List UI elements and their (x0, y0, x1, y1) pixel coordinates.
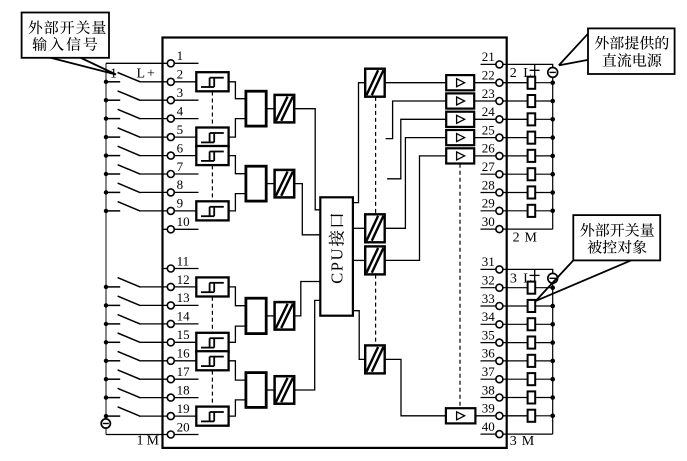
wire load L29 to bus (535, 210, 553, 212)
wire load L36 to bus (535, 360, 553, 362)
terminal 4 (167, 115, 174, 122)
wire load L27 to bus (535, 173, 553, 175)
wire terminal 37 to load (481, 378, 528, 380)
wire load L35 to bus (535, 342, 553, 344)
svg-text:11: 11 (177, 253, 190, 268)
wire terminal 30 (2M) (481, 228, 553, 230)
left input bus 1L+ vertical (105, 63, 107, 419)
wire filter F5 to input box A1 (229, 119, 246, 138)
wire terminal 35 to load (481, 342, 528, 344)
wire box A2 to optocoupler ISO2 (266, 183, 274, 185)
load L32 (528, 282, 536, 294)
switch S8 blade (118, 183, 141, 193)
output driver D24 (446, 112, 474, 127)
svg-text:20: 20 (177, 419, 190, 434)
junction dot bus at 25 (550, 135, 555, 140)
wire terminal 31 to DC source 3L+ (481, 269, 553, 273)
terminal 10 (167, 226, 174, 233)
wire terminal 34 to load (481, 323, 528, 325)
wire CPU to transformer T1 (353, 83, 365, 203)
dashed continuation T1-T2 (375, 97, 377, 214)
junction dot bus at 27 (550, 172, 555, 177)
switch S3 fixed-contact stub (106, 99, 120, 101)
switch S6 blade (118, 146, 141, 156)
input filter (hysteresis) F9 (196, 201, 228, 220)
junction dot bus at 24 (550, 117, 555, 122)
svg-text:34: 34 (482, 309, 496, 324)
junction dot bus at 29 (550, 209, 555, 214)
isolation transformer T1 (365, 69, 385, 97)
wire switch S3 to terminal 3 (141, 99, 199, 101)
DC source negative terminal left (circled minus) (101, 419, 110, 428)
svg-text:L: L (523, 66, 532, 81)
svg-text:CPU: CPU (328, 247, 347, 284)
input filter (hysteresis) F12 (196, 277, 228, 296)
wire switch S2 to terminal 2 (141, 81, 197, 83)
terminal 35 (496, 339, 503, 346)
wire load L37 to bus (535, 378, 553, 380)
terminal 15 (167, 339, 174, 346)
input summing box A1 (246, 91, 266, 126)
svg-text:27: 27 (482, 159, 496, 174)
switch S4 fixed-contact stub (106, 118, 120, 120)
load L26 (528, 150, 536, 162)
input filter (hysteresis) F19 (196, 407, 228, 426)
dashed continuation line between F6 and F9 (211, 165, 213, 201)
svg-text:19: 19 (177, 401, 190, 416)
switch S2 fixed-contact stub (106, 81, 120, 83)
bus 3M vertical (552, 283, 554, 434)
junction dot on 1L+ bus at switch 18 (104, 395, 108, 399)
switch S18 fixed-contact stub (106, 397, 120, 399)
svg-text:L: L (137, 67, 146, 82)
terminal 1 (167, 60, 174, 67)
load L29 (528, 205, 536, 217)
load L38 (528, 391, 536, 403)
junction dot on 1L+ bus at switch 7 (104, 172, 108, 176)
junction dot on 1L+ bus at switch 6 (104, 153, 108, 157)
load L39 (528, 410, 536, 422)
switch S7 fixed-contact stub (106, 173, 120, 175)
terminal 11 (167, 265, 174, 272)
wire switch S7 to terminal 7 (141, 173, 199, 175)
terminal 26 (496, 152, 503, 159)
wire stub driver D23 (continuation) (386, 101, 447, 139)
optocoupler ISO2 (275, 170, 295, 198)
svg-text:31: 31 (482, 254, 495, 269)
bus 2M vertical (552, 77, 554, 229)
svg-text:9: 9 (177, 196, 184, 211)
switch S16 blade (118, 351, 141, 361)
load L23 (528, 95, 536, 107)
wire switch S18 to terminal 18 (141, 397, 199, 399)
svg-text:36: 36 (482, 346, 496, 361)
isolation transformer T4 (365, 345, 385, 373)
DC source G2 (circled minus) (548, 68, 558, 78)
optocoupler ISO4 (275, 376, 295, 404)
switch S8 fixed-contact stub (106, 191, 120, 193)
input filter (hysteresis) F15 (196, 333, 228, 352)
dashed continuation T3-T4 (375, 275, 377, 346)
wire terminal 27 to load (481, 173, 528, 175)
switch S17 fixed-contact stub (106, 378, 120, 380)
junction dot bus at 38 (550, 395, 555, 400)
terminal 7 (167, 171, 174, 178)
load L34 (528, 318, 536, 330)
input filter (hysteresis) F6 (196, 146, 228, 165)
terminal 27 (496, 171, 503, 178)
wire switch S13 to terminal 13 (141, 304, 199, 306)
load L36 (528, 355, 536, 367)
dashed continuation line between F16 and F19 (211, 371, 213, 407)
wire optocoupler ISO2 to CPU (294, 184, 320, 235)
svg-text:M: M (147, 434, 160, 449)
svg-text:40: 40 (482, 419, 495, 434)
wire filter F2 to input box A1 (229, 82, 246, 99)
dashed continuation line between F2 and F5 (211, 92, 213, 128)
svg-text:16: 16 (177, 346, 191, 361)
wire stub terminal 10 (163, 228, 199, 230)
wire T1 to driver D22 (385, 82, 447, 84)
input filter (hysteresis) F5 (196, 128, 228, 147)
junction dot bus at 34 (550, 322, 555, 327)
wire terminal 29 to load (481, 210, 528, 212)
svg-text:12: 12 (177, 272, 190, 287)
optocoupler ISO3 (275, 302, 295, 330)
wire box A3 to optocoupler ISO3 (266, 315, 274, 317)
wire filter F16 to input box A4 (229, 361, 246, 380)
CPU interface block U1 (320, 197, 353, 315)
wire T3 to driver D26 (385, 156, 447, 261)
left bus lower segment (105, 428, 107, 434)
switch S3 blade (118, 91, 141, 101)
svg-text:8: 8 (177, 177, 184, 192)
wire optocoupler ISO3 to CPU (294, 282, 320, 316)
input filter (hysteresis) F16 (196, 351, 228, 370)
output driver D39 (446, 408, 476, 423)
terminal 17 (167, 376, 174, 383)
wire bus to terminal 1 (106, 62, 199, 64)
junction dot bus at 23 (550, 99, 555, 104)
wire driver D23 to terminal 23 and load (474, 100, 527, 102)
svg-text:7: 7 (177, 159, 184, 174)
svg-text:10: 10 (177, 214, 190, 229)
wire stub driver D24 (continuation) (387, 119, 446, 179)
svg-text:5: 5 (177, 122, 184, 137)
svg-text:+: + (147, 67, 155, 82)
terminal 20 (167, 431, 174, 438)
wire optocoupler ISO1 to CPU (294, 109, 320, 210)
load L24 (528, 113, 536, 125)
wire load L34 to bus (535, 323, 553, 325)
junction dot bus at 33 (550, 304, 555, 309)
switch S13 blade (118, 296, 141, 306)
isolation transformer T2 (365, 214, 385, 242)
label 3L plus-cross (530, 274, 540, 276)
svg-text:35: 35 (482, 327, 495, 342)
svg-text:37: 37 (482, 364, 496, 379)
output driver D26 (446, 148, 474, 163)
wire load L38 to bus (535, 397, 553, 399)
switch S19 fixed-contact stub (106, 415, 120, 417)
terminal 40 (496, 431, 503, 438)
svg-text:26: 26 (482, 141, 496, 156)
svg-text:3: 3 (510, 272, 517, 287)
input filter (hysteresis) F2 (196, 72, 228, 91)
terminal 16 (167, 357, 174, 364)
wire driver D22 to terminal 22 and load (474, 82, 527, 84)
input summing box A2 (246, 166, 266, 201)
wire load L23 to bus (535, 100, 553, 102)
wire terminal 28 to load (481, 192, 528, 194)
wire terminal 33 to load (481, 305, 528, 307)
junction dot on 1L+ bus at switch 3 (104, 98, 108, 102)
junction dot on 1L+ bus at switch 5 (104, 135, 108, 139)
wire stub terminal 11 (163, 268, 199, 270)
terminal 5 (167, 134, 174, 141)
load L25 (528, 132, 536, 144)
junction dot bus at 37 (550, 377, 555, 382)
switch S4 blade (118, 109, 141, 119)
wire switch S9 to terminal 9 (141, 210, 197, 212)
terminal 30 (496, 226, 503, 233)
junction dot bus at 26 (550, 154, 555, 159)
svg-text:6: 6 (177, 140, 184, 155)
junction dot bus at 32 (550, 285, 555, 290)
terminal 2 (167, 78, 174, 85)
svg-text:23: 23 (482, 86, 495, 101)
terminal 39 (496, 412, 503, 419)
switch S9 blade (118, 202, 141, 212)
wire switch S14 to terminal 14 (141, 323, 199, 325)
terminal 24 (496, 116, 503, 123)
main module rectangle (163, 38, 507, 448)
wire box A4 to optocoupler ISO4 (266, 389, 274, 391)
wire CPU to transformer T3 (353, 259, 365, 261)
wire terminal 40 (3M) (481, 433, 553, 435)
terminal 3 (167, 97, 174, 104)
wire filter F12 to input box A3 (229, 287, 246, 306)
switch S5 fixed-contact stub (106, 136, 120, 138)
wire T2 to driver D25 (385, 138, 447, 229)
switch S15 fixed-contact stub (106, 341, 120, 343)
wire filter F9 to input box A2 (229, 194, 246, 211)
switch S18 blade (118, 388, 141, 398)
terminal 34 (496, 321, 503, 328)
junction dot on 1L+ bus at switch 19 (104, 414, 108, 418)
wire optocoupler ISO4 to CPU (294, 300, 320, 390)
switch S12 fixed-contact stub (106, 286, 120, 288)
wire filter F19 to input box A4 (229, 400, 246, 416)
switch S19 blade (118, 407, 141, 417)
junction dot on 1L+ bus at switch 8 (104, 190, 108, 194)
svg-text:38: 38 (482, 382, 495, 397)
wire T4 to driver D39 (385, 359, 446, 415)
terminal 23 (496, 98, 503, 105)
switch S16 fixed-contact stub (106, 360, 120, 362)
input summing box A3 (246, 298, 266, 333)
junction dot bus at 28 (550, 190, 555, 195)
callout box: externally supplied DC power (588, 28, 675, 74)
junction dot on 1L+ bus at switch 13 (104, 303, 108, 307)
output driver D25 (446, 130, 474, 145)
callout tail (external input signals) (51, 58, 117, 75)
switch S7 blade (118, 165, 141, 175)
svg-text:17: 17 (177, 364, 191, 379)
switch S5 blade (118, 128, 141, 138)
svg-text:39: 39 (482, 401, 495, 416)
svg-text:28: 28 (482, 177, 495, 192)
junction dot on 1L+ bus at switch 9 (104, 209, 108, 213)
svg-text:29: 29 (482, 196, 495, 211)
terminal 19 (167, 413, 174, 420)
wire switch S15 to terminal 15 (141, 341, 197, 343)
svg-text:M: M (525, 231, 538, 246)
terminal 9 (167, 207, 174, 214)
junction dot on 1L+ bus at switch 16 (104, 359, 108, 363)
terminal 6 (167, 152, 174, 159)
load L35 (528, 337, 536, 349)
optocoupler ISO1 (275, 95, 295, 123)
wire switch S19 to terminal 19 (141, 415, 197, 417)
svg-text:33: 33 (482, 291, 495, 306)
junction dot bus at 36 (550, 359, 555, 364)
junction dot on 1L+ bus at switch 4 (104, 116, 108, 120)
load L33 (528, 300, 536, 312)
output driver D23 (446, 93, 474, 108)
terminal 29 (496, 207, 503, 214)
wire CPU to transformer T2 (353, 227, 365, 229)
wire switch S6 to terminal 6 (141, 155, 197, 157)
svg-text:14: 14 (177, 309, 191, 324)
svg-text:13: 13 (177, 290, 190, 305)
dashed continuation driver column (459, 164, 461, 408)
svg-text:2: 2 (510, 66, 517, 81)
load L28 (528, 186, 536, 198)
wire load L39 to bus (535, 415, 553, 417)
wire driver D25 to terminal 25 and load (474, 137, 527, 139)
svg-text:24: 24 (482, 104, 496, 119)
terminal 22 (496, 79, 503, 86)
wire CPU to transformer T4 (353, 311, 365, 360)
input summing box A4 (246, 373, 266, 408)
terminal 18 (167, 394, 174, 401)
wire terminal 36 to load (481, 360, 528, 362)
wire load L33 to bus (535, 305, 553, 307)
wire load L24 to bus (535, 118, 553, 120)
wire filter F15 to input box A3 (229, 326, 246, 342)
label 2L plus-cross (530, 69, 540, 71)
svg-text:1: 1 (137, 434, 144, 449)
switch S14 fixed-contact stub (106, 323, 120, 325)
junction dot bus at 35 (550, 340, 555, 345)
terminal 38 (496, 394, 503, 401)
wire load L22 to bus (535, 82, 553, 84)
wire driver D39 to terminal 39 and load (475, 415, 527, 417)
svg-text:1: 1 (177, 48, 184, 63)
wire driver D24 to terminal 24 and load (474, 118, 527, 120)
wire bus to terminal 20 (106, 434, 199, 436)
svg-text:M: M (522, 434, 535, 449)
terminal 31 (496, 266, 503, 273)
callout box: external switch input signals (22, 13, 109, 58)
wire switch S12 to terminal 12 (141, 286, 197, 288)
wire load L28 to bus (535, 192, 553, 194)
svg-text:22: 22 (482, 68, 495, 83)
svg-text:3: 3 (177, 85, 184, 100)
switch S17 blade (118, 370, 141, 380)
svg-text:2: 2 (177, 67, 184, 82)
terminal 21 (496, 61, 503, 68)
junction dot on 1L+ bus at switch 15 (104, 340, 108, 344)
switch S13 fixed-contact stub (106, 304, 120, 306)
svg-text:L: L (523, 272, 532, 287)
wire filter F6 to input box A2 (229, 156, 246, 174)
wire load L25 to bus (535, 137, 553, 139)
junction dot on 1L+ bus at switch 17 (104, 377, 108, 381)
junction dot on 1L+ bus at switch 2 (104, 80, 108, 84)
terminal 28 (496, 189, 503, 196)
DC source G3 (circled minus) (548, 273, 558, 283)
wire driver D26 to terminal 26 and load (474, 155, 527, 157)
dashed continuation line between F12 and F15 (211, 297, 213, 333)
load L27 (528, 168, 536, 180)
terminal 8 (167, 189, 174, 196)
wire terminal 32 to load (481, 287, 528, 289)
wire load L32 to bus (535, 287, 553, 289)
wire terminal 21 to DC source 2L+ (481, 64, 553, 67)
callout tail (external DC power) (559, 34, 588, 66)
callout box: external switch controlled objects (573, 215, 660, 260)
terminal 36 (496, 357, 503, 364)
wire load L26 to bus (535, 155, 553, 157)
svg-text:30: 30 (482, 214, 495, 229)
switch S6 fixed-contact stub (106, 155, 120, 157)
terminal 14 (167, 320, 174, 327)
wire switch S8 to terminal 8 (141, 191, 199, 193)
isolation transformer T3 (365, 246, 385, 274)
junction dot on 1L+ bus at switch 14 (104, 322, 108, 326)
switch S12 blade (118, 278, 141, 288)
svg-text:32: 32 (482, 273, 495, 288)
wire terminal 38 to load (481, 397, 528, 399)
wire switch S17 to terminal 17 (141, 378, 199, 380)
switch S9 fixed-contact stub (106, 210, 120, 212)
switch S2 blade (118, 73, 141, 83)
switch S14 blade (118, 315, 141, 325)
svg-text:3: 3 (510, 434, 517, 449)
load L37 (528, 373, 536, 385)
svg-text:21: 21 (482, 49, 495, 64)
terminal 13 (167, 302, 174, 309)
junction dot bus at 22 (550, 80, 555, 85)
output driver D22 (446, 75, 474, 90)
switch S15 blade (118, 333, 141, 343)
svg-text:25: 25 (482, 122, 495, 137)
svg-text:18: 18 (177, 382, 190, 397)
terminal 32 (496, 284, 503, 291)
wire box A1 to optocoupler ISO1 (266, 108, 274, 110)
svg-text:2: 2 (513, 231, 520, 246)
load L22 (528, 77, 536, 89)
terminal 25 (496, 134, 503, 141)
terminal 33 (496, 303, 503, 310)
svg-text:15: 15 (177, 327, 190, 342)
callout tail (external controlled objects) (536, 260, 631, 301)
terminal 37 (496, 376, 503, 383)
wire switch S16 to terminal 16 (141, 360, 197, 362)
terminal 12 (167, 283, 174, 290)
